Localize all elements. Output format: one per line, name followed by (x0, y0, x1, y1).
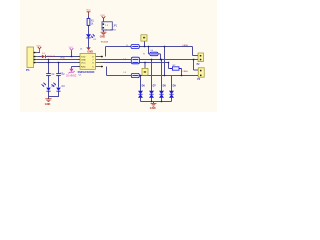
svg-text:P1: P1 (26, 68, 30, 72)
svg-text:VCC: VCC (86, 10, 91, 12)
svg-text:RXD: RXD (81, 66, 86, 68)
svg-text:GND: GND (100, 36, 106, 39)
svg-text:CANH: CANH (182, 44, 189, 47)
svg-text:HDR2: HDR2 (110, 30, 117, 32)
svg-text:CANL: CANL (182, 70, 189, 73)
svg-text:VCC: VCC (100, 15, 105, 17)
svg-text:D5 MMSZ: D5 MMSZ (66, 76, 77, 78)
svg-text:VCC: VCC (81, 62, 86, 64)
svg-text:GND: GND (45, 103, 51, 106)
svg-text:VCC: VCC (36, 46, 41, 48)
svg-text:GND: GND (87, 49, 93, 53)
svg-text:TXD: TXD (81, 56, 86, 58)
svg-text:VCC: VCC (69, 47, 74, 49)
svg-text:GND: GND (150, 106, 156, 110)
svg-text:GND: GND (81, 59, 86, 61)
svg-text:1N4148: 1N4148 (47, 56, 55, 58)
svg-text:VCC33: VCC33 (101, 41, 109, 43)
svg-text:SN65HVD230D: SN65HVD230D (78, 71, 95, 74)
svg-text:RXD: RXD (61, 58, 66, 60)
